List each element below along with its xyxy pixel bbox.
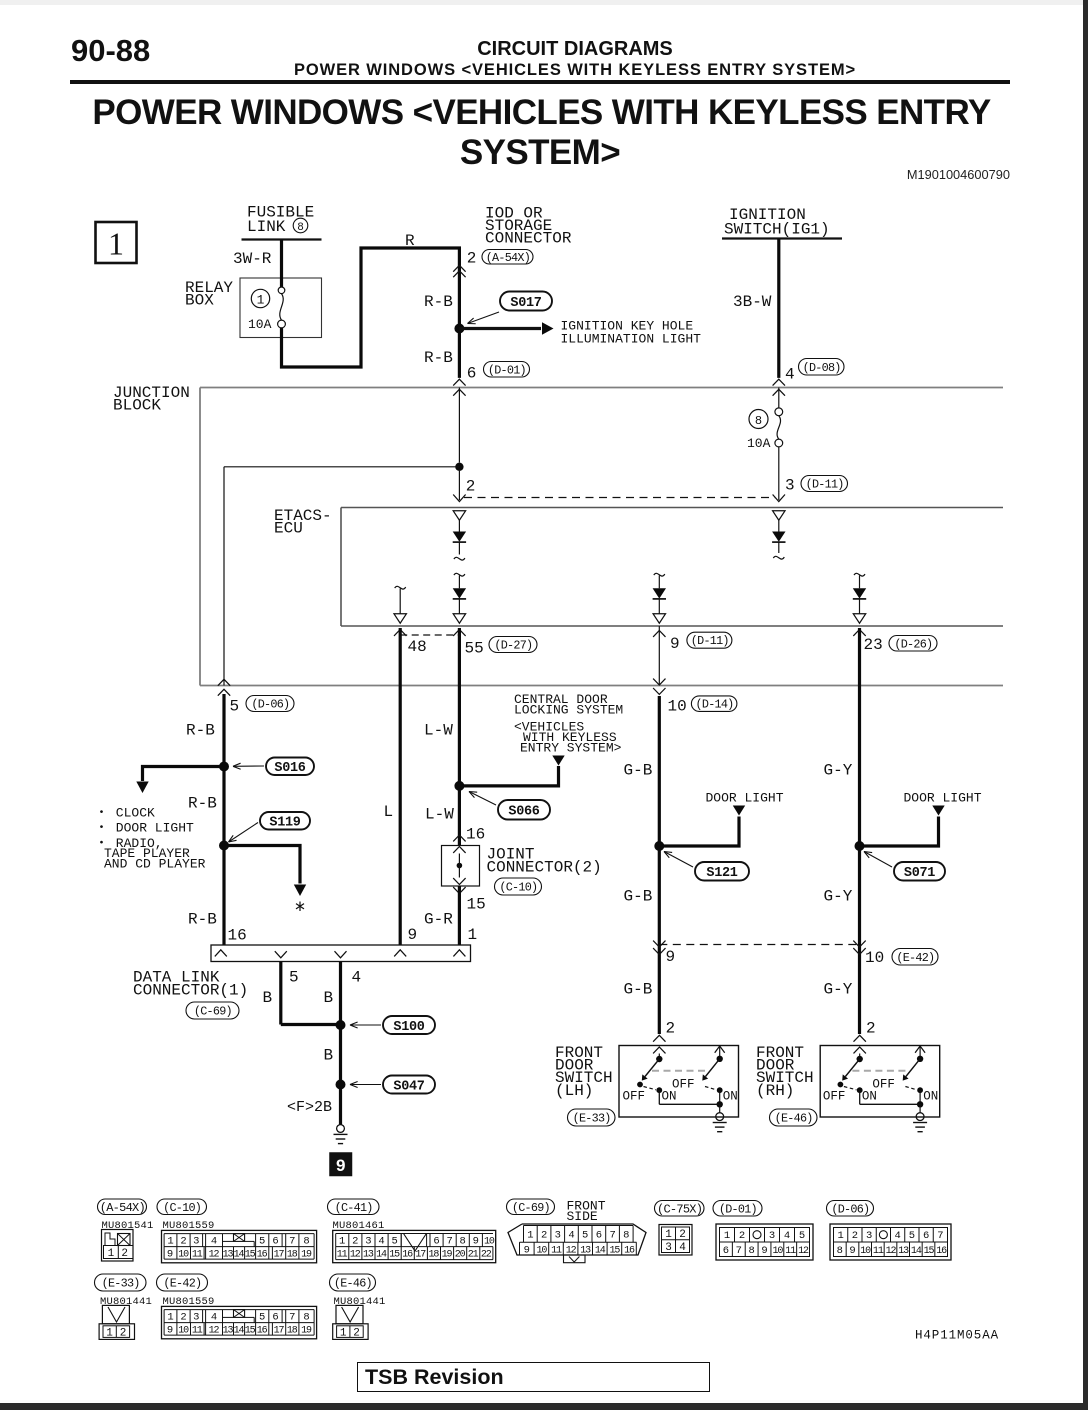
svg-text:2: 2 bbox=[852, 1230, 858, 1242]
svg-text:2: 2 bbox=[679, 1229, 686, 1241]
svg-text:G-Y: G-Y bbox=[824, 888, 853, 906]
svg-text:10: 10 bbox=[178, 1250, 189, 1261]
svg-text:R-B: R-B bbox=[424, 349, 453, 367]
svg-text:18: 18 bbox=[428, 1250, 439, 1261]
svg-text:L-W: L-W bbox=[425, 806, 454, 824]
svg-text:B: B bbox=[324, 1047, 334, 1065]
svg-text:10: 10 bbox=[668, 698, 687, 716]
svg-text:R-B: R-B bbox=[186, 722, 215, 740]
svg-text:G-Y: G-Y bbox=[824, 981, 853, 999]
svg-text:1: 1 bbox=[468, 926, 478, 944]
svg-text:(E-33): (E-33) bbox=[102, 1277, 140, 1291]
svg-text:3W-R: 3W-R bbox=[233, 250, 272, 268]
svg-text:(D-26): (D-26) bbox=[894, 637, 932, 651]
svg-text:4: 4 bbox=[679, 1242, 686, 1254]
svg-text:8: 8 bbox=[755, 414, 762, 428]
svg-text:4: 4 bbox=[568, 1229, 574, 1241]
svg-text:11: 11 bbox=[192, 1326, 203, 1337]
svg-text:OFF: OFF bbox=[872, 1078, 895, 1092]
svg-text:MU801441: MU801441 bbox=[334, 1296, 386, 1308]
svg-text:11: 11 bbox=[873, 1246, 884, 1257]
svg-text:BLOCK: BLOCK bbox=[113, 397, 161, 415]
svg-text:15: 15 bbox=[467, 896, 486, 914]
svg-text:2: 2 bbox=[666, 1020, 676, 1038]
svg-text:(C-75X): (C-75X) bbox=[657, 1202, 702, 1216]
svg-text:8: 8 bbox=[460, 1236, 466, 1248]
svg-text:・ DOOR LIGHT: ・ DOOR LIGHT bbox=[95, 821, 194, 836]
svg-text:MU801541: MU801541 bbox=[102, 1220, 154, 1232]
svg-text:12: 12 bbox=[798, 1246, 809, 1257]
svg-text:3: 3 bbox=[785, 477, 795, 495]
svg-text:MU801441: MU801441 bbox=[100, 1296, 152, 1308]
svg-text:(D-08): (D-08) bbox=[803, 361, 841, 375]
svg-text:14: 14 bbox=[911, 1246, 922, 1257]
svg-text:2: 2 bbox=[866, 1020, 876, 1038]
svg-text:(E-42): (E-42) bbox=[896, 951, 934, 965]
svg-text:OFF: OFF bbox=[623, 1090, 646, 1104]
svg-text:3: 3 bbox=[365, 1236, 371, 1248]
svg-text:7: 7 bbox=[289, 1236, 295, 1248]
svg-text:DOOR LIGHT: DOOR LIGHT bbox=[904, 791, 982, 806]
svg-text:13: 13 bbox=[223, 1326, 234, 1337]
svg-text:ILLUMINATION LIGHT: ILLUMINATION LIGHT bbox=[561, 332, 702, 347]
svg-text:SIDE: SIDE bbox=[567, 1209, 598, 1224]
svg-text:2: 2 bbox=[353, 1327, 360, 1339]
svg-text:8: 8 bbox=[303, 1312, 309, 1324]
svg-text:BOX: BOX bbox=[185, 292, 214, 310]
svg-text:7: 7 bbox=[609, 1229, 615, 1241]
svg-text:10A: 10A bbox=[747, 436, 771, 451]
svg-text:(C-69): (C-69) bbox=[512, 1201, 550, 1215]
svg-text:7: 7 bbox=[446, 1236, 452, 1248]
svg-text:G-R: G-R bbox=[424, 911, 453, 929]
svg-text:ON: ON bbox=[723, 1090, 738, 1104]
svg-text:3: 3 bbox=[769, 1230, 775, 1242]
svg-text:20: 20 bbox=[455, 1250, 466, 1261]
svg-text:11: 11 bbox=[337, 1250, 348, 1261]
svg-text:7: 7 bbox=[289, 1312, 295, 1324]
svg-text:(D-06): (D-06) bbox=[831, 1202, 869, 1216]
svg-text:4: 4 bbox=[211, 1236, 217, 1248]
svg-text:21: 21 bbox=[468, 1250, 479, 1261]
svg-text:ON: ON bbox=[923, 1090, 938, 1104]
svg-text:14: 14 bbox=[376, 1250, 387, 1261]
svg-text:8: 8 bbox=[303, 1236, 309, 1248]
svg-text:(RH): (RH) bbox=[756, 1082, 794, 1100]
svg-text:1: 1 bbox=[339, 1236, 345, 1248]
svg-text:2: 2 bbox=[352, 1236, 358, 1248]
svg-text:ON: ON bbox=[862, 1090, 877, 1104]
svg-text:(D-01): (D-01) bbox=[719, 1202, 757, 1216]
svg-text:5: 5 bbox=[391, 1236, 397, 1248]
svg-text:17: 17 bbox=[274, 1250, 285, 1261]
svg-text:(A-54X): (A-54X) bbox=[486, 251, 530, 265]
svg-text:6: 6 bbox=[272, 1312, 278, 1324]
svg-text:CONNECTOR: CONNECTOR bbox=[485, 230, 572, 248]
svg-text:(A-54X): (A-54X) bbox=[100, 1201, 145, 1215]
svg-text:B: B bbox=[324, 989, 334, 1007]
svg-text:6: 6 bbox=[433, 1236, 439, 1248]
svg-text:OFF: OFF bbox=[823, 1090, 846, 1104]
svg-text:1: 1 bbox=[724, 1230, 730, 1242]
svg-text:5: 5 bbox=[259, 1312, 265, 1324]
svg-text:2: 2 bbox=[541, 1229, 547, 1241]
svg-text:9: 9 bbox=[408, 926, 418, 944]
svg-text:2: 2 bbox=[180, 1236, 186, 1248]
svg-text:6: 6 bbox=[596, 1229, 602, 1241]
svg-text:9: 9 bbox=[167, 1249, 173, 1261]
svg-text:1: 1 bbox=[108, 1248, 115, 1260]
svg-text:14: 14 bbox=[234, 1326, 245, 1337]
svg-text:AND CD PLAYER: AND CD PLAYER bbox=[104, 857, 206, 872]
svg-text:7: 7 bbox=[736, 1245, 742, 1257]
svg-text:1: 1 bbox=[837, 1230, 843, 1242]
svg-text:12: 12 bbox=[350, 1250, 361, 1261]
svg-text:18: 18 bbox=[287, 1326, 298, 1337]
svg-text:S121: S121 bbox=[706, 866, 737, 881]
svg-text:1: 1 bbox=[167, 1236, 173, 1248]
svg-text:15: 15 bbox=[245, 1326, 256, 1337]
svg-text:(D-11): (D-11) bbox=[691, 634, 729, 648]
svg-text:15: 15 bbox=[245, 1250, 256, 1261]
svg-text:8: 8 bbox=[297, 222, 304, 234]
svg-text:2: 2 bbox=[180, 1312, 186, 1324]
svg-text:S100: S100 bbox=[393, 1020, 424, 1035]
svg-text:6: 6 bbox=[467, 365, 477, 383]
svg-text:R-B: R-B bbox=[188, 795, 217, 813]
svg-text:4: 4 bbox=[784, 1230, 790, 1242]
svg-text:16: 16 bbox=[466, 826, 485, 844]
svg-text:9: 9 bbox=[336, 1156, 345, 1175]
svg-text:10: 10 bbox=[178, 1326, 189, 1337]
svg-text:16: 16 bbox=[624, 1246, 635, 1257]
svg-text:8: 8 bbox=[837, 1245, 843, 1257]
svg-text:19: 19 bbox=[442, 1250, 453, 1261]
svg-text:G-B: G-B bbox=[624, 981, 653, 999]
svg-text:9: 9 bbox=[670, 635, 680, 653]
svg-text:OFF: OFF bbox=[672, 1078, 695, 1092]
svg-text:3: 3 bbox=[555, 1229, 561, 1241]
svg-text:S066: S066 bbox=[508, 805, 539, 820]
svg-text:11: 11 bbox=[192, 1250, 203, 1261]
svg-text:12: 12 bbox=[209, 1326, 220, 1337]
svg-text:CONNECTOR(1): CONNECTOR(1) bbox=[133, 982, 248, 1000]
svg-text:2: 2 bbox=[739, 1230, 745, 1242]
svg-text:9: 9 bbox=[666, 948, 676, 966]
svg-text:22: 22 bbox=[481, 1250, 492, 1261]
svg-text:(E-42): (E-42) bbox=[163, 1277, 201, 1291]
svg-text:11: 11 bbox=[551, 1246, 562, 1257]
svg-text:12: 12 bbox=[209, 1250, 220, 1261]
svg-text:S016: S016 bbox=[274, 761, 305, 776]
svg-text:(D-27): (D-27) bbox=[494, 639, 532, 653]
svg-text:9: 9 bbox=[473, 1236, 479, 1248]
svg-text:ENTRY SYSTEM>: ENTRY SYSTEM> bbox=[520, 741, 622, 756]
svg-text:3B-W: 3B-W bbox=[733, 293, 772, 311]
svg-text:(C-10): (C-10) bbox=[499, 881, 537, 895]
svg-text:1: 1 bbox=[106, 1327, 113, 1339]
svg-text:4: 4 bbox=[894, 1230, 900, 1242]
svg-text:S017: S017 bbox=[510, 296, 541, 311]
svg-text:3: 3 bbox=[193, 1312, 199, 1324]
svg-text:10: 10 bbox=[484, 1237, 495, 1248]
svg-text:(D-14): (D-14) bbox=[696, 698, 734, 712]
svg-text:H4P11M05AA: H4P11M05AA bbox=[915, 1329, 999, 1343]
svg-text:G-Y: G-Y bbox=[824, 762, 853, 780]
svg-text:(D-06): (D-06) bbox=[251, 698, 289, 712]
svg-text:(C-10): (C-10) bbox=[163, 1201, 201, 1215]
svg-text:55: 55 bbox=[465, 640, 484, 658]
svg-text:16: 16 bbox=[228, 927, 247, 945]
svg-text:1: 1 bbox=[167, 1312, 173, 1324]
svg-text:16: 16 bbox=[257, 1326, 268, 1337]
svg-text:L-W: L-W bbox=[424, 722, 453, 740]
svg-text:ON: ON bbox=[662, 1090, 677, 1104]
svg-text:1: 1 bbox=[527, 1229, 533, 1241]
svg-text:5: 5 bbox=[582, 1229, 588, 1241]
svg-text:(C-69): (C-69) bbox=[194, 1005, 232, 1019]
svg-text:LINK: LINK bbox=[247, 218, 286, 236]
svg-text:17: 17 bbox=[274, 1326, 285, 1337]
svg-text:S047: S047 bbox=[393, 1079, 424, 1094]
svg-text:S119: S119 bbox=[269, 816, 300, 831]
svg-text:S071: S071 bbox=[904, 866, 935, 881]
svg-text:6: 6 bbox=[923, 1230, 929, 1242]
svg-text:19: 19 bbox=[301, 1250, 312, 1261]
svg-text:3: 3 bbox=[665, 1242, 672, 1254]
svg-text:(E-46): (E-46) bbox=[334, 1277, 372, 1291]
svg-text:CONNECTOR(2): CONNECTOR(2) bbox=[487, 859, 602, 877]
svg-text:11: 11 bbox=[785, 1246, 796, 1257]
svg-text:2: 2 bbox=[120, 1327, 127, 1339]
svg-text:3: 3 bbox=[193, 1236, 199, 1248]
svg-text:(E-46): (E-46) bbox=[775, 1112, 813, 1126]
svg-text:(LH): (LH) bbox=[555, 1082, 593, 1100]
svg-text:19: 19 bbox=[301, 1326, 312, 1337]
svg-text:1: 1 bbox=[665, 1229, 672, 1241]
svg-text:DOOR LIGHT: DOOR LIGHT bbox=[706, 791, 784, 806]
svg-text:16: 16 bbox=[936, 1246, 947, 1257]
svg-text:16: 16 bbox=[257, 1250, 268, 1261]
svg-text:14: 14 bbox=[234, 1250, 245, 1261]
svg-text:SWITCH(IG1): SWITCH(IG1) bbox=[724, 221, 830, 239]
svg-text:G-B: G-B bbox=[624, 762, 653, 780]
svg-text:R-B: R-B bbox=[188, 911, 217, 929]
svg-text:4: 4 bbox=[785, 366, 795, 384]
svg-text:8: 8 bbox=[748, 1245, 754, 1257]
svg-text:9: 9 bbox=[167, 1325, 173, 1337]
svg-text:14: 14 bbox=[595, 1246, 606, 1257]
svg-text:6: 6 bbox=[723, 1245, 729, 1257]
svg-text:10A: 10A bbox=[248, 317, 272, 332]
svg-text:2: 2 bbox=[121, 1248, 128, 1260]
svg-text:13: 13 bbox=[363, 1250, 374, 1261]
svg-text:LOCKING SYSTEM: LOCKING SYSTEM bbox=[514, 703, 623, 718]
svg-text:<F>2B: <F>2B bbox=[287, 1099, 332, 1116]
svg-text:(D-01): (D-01) bbox=[488, 363, 526, 377]
svg-text:15: 15 bbox=[609, 1246, 620, 1257]
svg-text:(D-11): (D-11) bbox=[806, 478, 844, 492]
svg-text:18: 18 bbox=[287, 1250, 298, 1261]
svg-text:13: 13 bbox=[898, 1246, 909, 1257]
svg-text:10: 10 bbox=[860, 1246, 871, 1257]
svg-text:10: 10 bbox=[865, 949, 884, 967]
svg-text:4: 4 bbox=[352, 969, 362, 987]
svg-text:1: 1 bbox=[108, 226, 124, 262]
svg-text:12: 12 bbox=[886, 1246, 897, 1257]
svg-text:4: 4 bbox=[378, 1236, 384, 1248]
svg-text:2: 2 bbox=[467, 250, 477, 268]
svg-text:48: 48 bbox=[408, 638, 427, 656]
svg-text:・ CLOCK: ・ CLOCK bbox=[95, 806, 155, 821]
svg-text:23: 23 bbox=[864, 636, 883, 654]
svg-text:1: 1 bbox=[340, 1327, 347, 1339]
svg-text:4: 4 bbox=[211, 1312, 217, 1324]
svg-text:R-B: R-B bbox=[424, 293, 453, 311]
svg-text:5: 5 bbox=[909, 1230, 915, 1242]
svg-text:2: 2 bbox=[466, 478, 476, 496]
svg-text:(E-33): (E-33) bbox=[573, 1112, 611, 1126]
svg-text:10: 10 bbox=[772, 1246, 783, 1257]
svg-text:17: 17 bbox=[415, 1250, 426, 1261]
svg-text:5: 5 bbox=[799, 1230, 805, 1242]
svg-text:5: 5 bbox=[230, 698, 240, 716]
svg-text:G-B: G-B bbox=[624, 888, 653, 906]
svg-text:10: 10 bbox=[536, 1246, 547, 1257]
svg-text:(C-41): (C-41) bbox=[335, 1201, 373, 1215]
svg-text:B: B bbox=[263, 989, 273, 1007]
svg-text:9: 9 bbox=[761, 1245, 767, 1257]
svg-text:5: 5 bbox=[259, 1236, 265, 1248]
svg-text:5: 5 bbox=[289, 969, 299, 987]
svg-text:3: 3 bbox=[866, 1230, 872, 1242]
svg-text:15: 15 bbox=[924, 1246, 935, 1257]
svg-text:13: 13 bbox=[223, 1250, 234, 1261]
svg-text:R: R bbox=[405, 232, 415, 250]
svg-text:16: 16 bbox=[402, 1250, 413, 1261]
svg-text:L: L bbox=[384, 803, 394, 821]
svg-text:8: 8 bbox=[623, 1229, 629, 1241]
svg-text:15: 15 bbox=[389, 1250, 400, 1261]
svg-text:9: 9 bbox=[849, 1245, 855, 1257]
svg-text:6: 6 bbox=[272, 1236, 278, 1248]
svg-text:ECU: ECU bbox=[274, 520, 303, 538]
svg-text:1: 1 bbox=[257, 292, 265, 307]
svg-text:9: 9 bbox=[524, 1245, 530, 1257]
svg-text:7: 7 bbox=[937, 1230, 943, 1242]
